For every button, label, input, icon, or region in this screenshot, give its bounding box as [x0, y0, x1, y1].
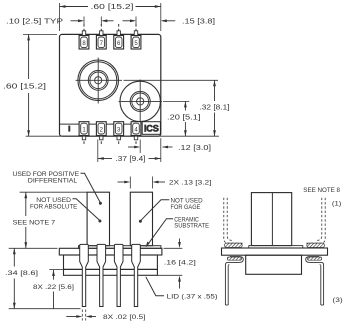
svg-text:.20 [5.1]: .20 [5.1]	[167, 113, 201, 122]
svg-text:.37 [9.4]: .37 [9.4]	[116, 154, 146, 163]
svg-text:.60 [15.2]: .60 [15.2]	[3, 82, 46, 91]
svg-text:.16 [4.2]: .16 [4.2]	[164, 259, 196, 266]
svg-text:(3): (3)	[332, 297, 342, 304]
svg-text:2X .13 [3.2]: 2X .13 [3.2]	[169, 180, 212, 187]
svg-text:FOR ABSOLUTE: FOR ABSOLUTE	[30, 203, 78, 210]
svg-text:.15 [3.8]: .15 [3.8]	[182, 17, 215, 26]
svg-text:SEE NOTE 8: SEE NOTE 8	[303, 187, 340, 194]
svg-text:.60 [15.2]: .60 [15.2]	[91, 2, 134, 11]
svg-text:FOR GAGE: FOR GAGE	[171, 204, 201, 211]
svg-text:8X .22 [5.6]: 8X .22 [5.6]	[33, 284, 74, 291]
svg-text:LID (.37 x .55): LID (.37 x .55)	[167, 293, 218, 300]
svg-text:ICS: ICS	[144, 124, 159, 134]
svg-text:DIFFERENTIAL: DIFFERENTIAL	[28, 177, 78, 184]
svg-text:.12 [3.0]: .12 [3.0]	[178, 143, 211, 152]
svg-text:.34 [8.6]: .34 [8.6]	[5, 270, 38, 277]
svg-text:(1): (1)	[332, 200, 342, 207]
svg-text:.10 [2.5] TYP: .10 [2.5] TYP	[6, 17, 63, 26]
svg-text:.32 [8.1]: .32 [8.1]	[200, 102, 230, 111]
svg-text:SEE NOTE 7: SEE NOTE 7	[13, 219, 56, 226]
svg-text:SUBSTRATE: SUBSTRATE	[174, 223, 209, 230]
svg-text:8X .02 [0.5]: 8X .02 [0.5]	[103, 314, 146, 321]
